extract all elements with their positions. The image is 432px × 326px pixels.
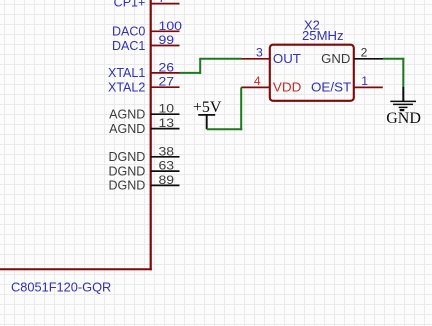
pin CP1+ (number 7, clipped at top): [114, 0, 180, 10]
pin AGND 13: [109, 116, 179, 136]
svg-text:AGND: AGND: [109, 108, 145, 122]
svg-text:GND: GND: [321, 52, 350, 66]
pin XTAL1 26: [108, 60, 179, 80]
svg-text:XTAL1: XTAL1: [108, 66, 145, 80]
wire vertical seg: [199, 59, 201, 74]
svg-text:XTAL2: XTAL2: [108, 81, 145, 95]
svg-text:DGND: DGND: [108, 150, 145, 164]
wire +5V to VDD horizontal: [207, 128, 243, 130]
svg-text:100: 100: [159, 19, 183, 33]
ground symbol stem: [402, 87, 404, 101]
pin XTAL2 27: [108, 75, 179, 95]
svg-text:26: 26: [159, 60, 175, 74]
wire vertical down: [402, 58, 404, 87]
svg-text:13: 13: [159, 116, 175, 130]
wire horizontal seg to OUT pin: [199, 58, 241, 60]
svg-text:2: 2: [361, 46, 368, 60]
oscillator X2 body: [270, 45, 354, 101]
svg-text:VDD: VDD: [273, 80, 302, 94]
svg-text:GND: GND: [386, 110, 421, 127]
svg-text:1: 1: [361, 74, 368, 88]
svg-text:99: 99: [159, 33, 175, 47]
svg-text:DGND: DGND: [108, 164, 145, 178]
svg-text:OUT: OUT: [273, 52, 301, 66]
wire XTAL1 to OUT : horizontal seg: [180, 72, 202, 74]
svg-text:+5V: +5V: [193, 99, 222, 116]
svg-text:CP1+: CP1+: [114, 0, 146, 10]
svg-text:AGND: AGND: [109, 122, 145, 136]
osc pin 4 VDD stub: [241, 86, 269, 88]
IC body bottom edge: [0, 268, 152, 270]
ground bar 4: [400, 109, 405, 111]
svg-text:63: 63: [159, 159, 175, 173]
svg-text:3: 3: [256, 45, 263, 59]
svg-text:4: 4: [254, 74, 261, 88]
pin DGND 38: [108, 144, 179, 164]
ground bar 3: [399, 106, 408, 108]
svg-text:C8051F120-GQR: C8051F120-GQR: [11, 280, 111, 294]
pin AGND 10: [109, 102, 179, 122]
osc pin 2 GND stub: [354, 58, 383, 60]
pin DGND 89: [108, 173, 179, 193]
ground bar 1: [390, 100, 416, 102]
IC U? C8051F120 body right edge: [150, 0, 152, 270]
svg-text:38: 38: [159, 144, 175, 158]
ground bar 2: [393, 103, 413, 105]
svg-text:7: 7: [159, 0, 166, 5]
svg-text:OE/ST: OE/ST: [311, 81, 352, 95]
+5V stem: [206, 115, 208, 129]
pin DAC0 100: [112, 19, 182, 39]
+5V bar: [198, 114, 215, 116]
osc pin 3 OUT stub: [242, 58, 270, 60]
svg-text:DGND: DGND: [108, 179, 145, 193]
pin DAC1 99: [112, 33, 180, 53]
svg-text:10: 10: [159, 102, 175, 116]
svg-text:25MHz: 25MHz: [302, 29, 344, 43]
svg-text:89: 89: [159, 173, 175, 187]
svg-text:DAC1: DAC1: [112, 39, 145, 53]
svg-text:27: 27: [159, 75, 175, 89]
wire GND pin to ground: horizontal: [383, 58, 404, 60]
osc pin 1 OE/ST stub: [354, 86, 383, 88]
pin DGND 63: [108, 159, 179, 179]
wire vertical up to VDD pin: [240, 87, 242, 130]
svg-text:DAC0: DAC0: [112, 25, 145, 39]
